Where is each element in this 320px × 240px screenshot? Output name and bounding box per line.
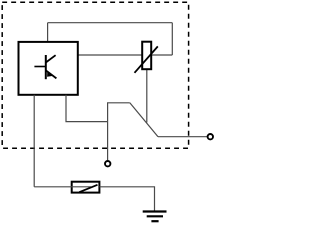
wire: horizontal from hybrid box right pin to right drop (78, 54, 173, 56)
wire: varistor lower lead down to switch arm (146, 69, 148, 122)
transistor Q1: collector stroke (46, 55, 56, 62)
transistor Q1: base bar (45, 55, 47, 79)
transistor Q1: emitter stroke with arrowhead (46, 70, 57, 78)
hybrid circuit box U1 (19, 42, 78, 95)
component enclosure (dashed boundary) (2, 2, 188, 148)
wire: junction drop to bottom terminal (107, 122, 109, 161)
wire: bottom rail into resistor (34, 186, 91, 188)
wire: right drop from top rail (171, 23, 173, 55)
terminal (bottom, open circle) (105, 161, 110, 166)
wire: to right terminal (158, 136, 207, 138)
varistor R (rectangle body, white fill over wire) (142, 42, 151, 69)
wire: middle bottom pin lead with corner (66, 95, 108, 122)
wire: left bottom pin lead down through boundary (33, 95, 35, 187)
resistor R1 (box body) (72, 182, 100, 193)
wire: resistor to ground corner (99, 187, 154, 211)
ground: bar 1 (143, 210, 167, 212)
ground: bar 3 (151, 220, 158, 222)
ground: bar 2 (147, 215, 163, 217)
resistor R1 diagonal (adjustable mark) (79, 185, 97, 192)
terminal (right, open circle) (208, 134, 213, 139)
varistor diagonal stroke (135, 46, 158, 72)
switch arm (diagonal) (130, 103, 158, 137)
transistor Q1: base lead (34, 66, 45, 68)
wire: junction riser to switch contact (108, 103, 130, 122)
wire: top rail (48, 22, 173, 24)
wire: top riser from hybrid box to top rail (47, 23, 49, 42)
